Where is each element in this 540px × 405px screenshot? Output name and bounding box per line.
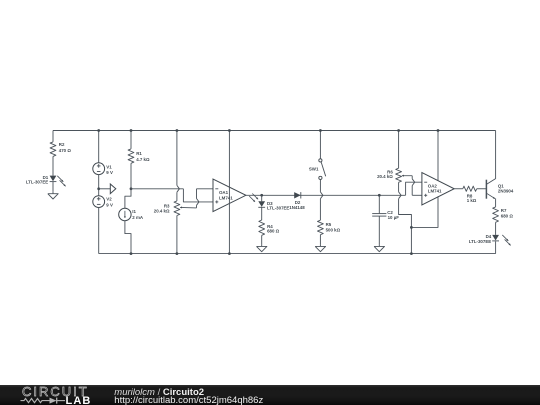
ground for C2 (374, 245, 384, 252)
svg-text:9 V: 9 V (106, 170, 113, 175)
wire V2 to bottom rail (98, 208, 100, 254)
svg-text:680 Ω: 680 Ω (501, 214, 514, 219)
svg-text:LM741: LM741 (219, 195, 233, 200)
svg-text:20.4 kΩ: 20.4 kΩ (154, 208, 170, 213)
svg-text:SW1: SW1 (309, 167, 319, 172)
wire D4 to bottom rail (495, 242, 497, 254)
transistor Q1 (486, 179, 495, 199)
wire rail to R3 with hop (177, 131, 180, 201)
wire bottom rail (99, 253, 496, 255)
resistor R4 (259, 220, 265, 235)
wire Q1 emitter to R7 (495, 198, 497, 207)
wire rail to R1 (130, 131, 132, 149)
wire R7 to D4 (495, 222, 497, 235)
svg-text:1N4148: 1N4148 (289, 205, 305, 210)
svg-text:I1: I1 (132, 209, 136, 214)
label R8 value (467, 193, 477, 203)
label D1 (26, 175, 49, 185)
junction SW1 top rail (319, 129, 322, 132)
junction V1 top rail (97, 129, 100, 132)
logo word CIRCUIT (22, 384, 89, 399)
label R4 value (267, 224, 280, 234)
label Q1 (498, 184, 514, 194)
logo diode (50, 398, 66, 404)
resistor R5 (318, 220, 324, 235)
wire C2 to ground (378, 216, 380, 245)
wire rail to SW1 (319, 131, 321, 159)
R3 wiper arrow (180, 206, 196, 208)
switch SW1 (319, 159, 326, 180)
wire OA1 output main (246, 182, 422, 195)
junction R3 bottom rail (176, 252, 179, 255)
junction R1 top rail (130, 129, 133, 132)
wire R1 to junction (130, 163, 132, 189)
svg-text:LTL-307EE: LTL-307EE (469, 239, 491, 244)
wire R8 to Q1 base (477, 188, 487, 190)
wire V1 to V2 (98, 175, 100, 196)
junction C2 node (378, 194, 381, 197)
wire Q1 collector to rail (495, 131, 497, 179)
LED D1 emission arrows (57, 176, 65, 187)
junction R1 I1 node (130, 187, 133, 190)
svg-text:1 kΩ: 1 kΩ (467, 198, 477, 203)
label R3 value (154, 204, 170, 214)
svg-text:R5: R5 (326, 222, 332, 227)
svg-text:LTL-307EE: LTL-307EE (26, 180, 48, 185)
wire OA2 output to R8 (454, 188, 463, 190)
resistor R2 (50, 142, 56, 157)
label R6 value (377, 170, 393, 180)
wire junction to I1 (125, 189, 131, 209)
wire rail to R6 (398, 131, 400, 169)
wire D1 to ground (52, 182, 54, 192)
junction OA2 Vplus rail (437, 129, 440, 132)
svg-text:2N3904: 2N3904 (498, 189, 514, 194)
logo word LAB (66, 395, 92, 405)
D3 incident light arrows (249, 194, 258, 202)
svg-text:500 kΩ: 500 kΩ (326, 227, 341, 232)
wire OA2 Vplus pin (437, 131, 439, 181)
label I1 (132, 209, 144, 220)
label OA1 (219, 190, 233, 200)
wire node to D3 (261, 195, 263, 201)
label R1 value (136, 151, 150, 162)
label D4 (469, 234, 492, 244)
voltage source V2 (93, 196, 105, 208)
wire R1 node to OA1 plus input (131, 189, 213, 202)
svg-text:470 Ω: 470 Ω (59, 148, 72, 153)
svg-text:680 Ω: 680 Ω (267, 228, 280, 233)
photodiode D3 (258, 201, 265, 207)
R6 wiper arrow (402, 175, 412, 177)
junction OA2 Vminus tee (410, 226, 413, 229)
wire rail to V1 (98, 131, 100, 163)
svg-text:4.7 kΩ: 4.7 kΩ (136, 157, 150, 162)
net flag at V1-V2 node (99, 184, 116, 194)
footer url (114, 395, 263, 405)
op-amp OA2 (422, 173, 454, 205)
svg-text:R2: R2 (59, 142, 65, 147)
svg-text:20.4 kΩ: 20.4 kΩ (377, 174, 393, 179)
junction R6 path bottom rail (410, 252, 413, 255)
svg-text:LM741: LM741 (428, 188, 442, 193)
wire top supply rail (53, 130, 496, 132)
svg-text:9 V: 9 V (106, 202, 113, 207)
logo resistor zigzag (21, 399, 50, 403)
wire R2 to D1 (52, 156, 54, 175)
LED D4 (492, 235, 499, 241)
label V2 (106, 197, 113, 208)
label D2 (289, 200, 305, 210)
wire D3 to R4 (261, 207, 263, 220)
svg-text:V2: V2 (106, 197, 112, 202)
footer author title (114, 387, 204, 398)
label C2 value (387, 210, 399, 220)
svg-text:2 mA: 2 mA (132, 215, 144, 220)
junction node between V1 V2 (97, 187, 100, 190)
svg-text:V1: V1 (106, 164, 112, 169)
resistor R7 (493, 207, 499, 222)
svg-text:R7: R7 (501, 208, 507, 213)
label OA2 (428, 184, 442, 194)
capacitor C2 (372, 214, 386, 217)
potentiometer R6 (396, 168, 402, 182)
svg-text:R1: R1 (136, 151, 142, 156)
op-amp OA1 (213, 179, 246, 212)
resistor R8 (463, 186, 477, 191)
junction D3 node (260, 194, 263, 197)
svg-text:10 µF: 10 µF (388, 215, 400, 220)
wire R5 to ground (319, 235, 321, 245)
wire R2 top (52, 131, 54, 142)
potentiometer R3 (174, 201, 180, 216)
footer watermark bar (0, 385, 540, 405)
LED D4 emission arrows (502, 235, 510, 246)
label V1 (106, 164, 113, 175)
label R7 value (501, 208, 514, 218)
wire R4 to ground (261, 235, 263, 244)
svg-text:LTL-307EE: LTL-307EE (267, 206, 289, 211)
ground for R5 (315, 245, 325, 252)
wire R3 to bottom rail (176, 216, 178, 254)
ground for D1 (48, 192, 58, 199)
wire OA2 Vminus pin (411, 196, 438, 227)
junction I1 bottom rail (130, 252, 133, 255)
resistor R1 (128, 149, 134, 163)
wire OA1 power to rails (228, 131, 230, 254)
wire R3 wiper to OA1 minus input (197, 189, 214, 208)
wire I1 to bottom rail (125, 221, 131, 254)
junction R6 top rail (397, 129, 400, 132)
junction OA1 Vplus rail (228, 129, 231, 132)
label D3 (267, 201, 289, 211)
current source I1 (119, 208, 131, 220)
diode D2 (294, 192, 301, 198)
wire node to C2 (378, 195, 380, 213)
junction OA1 Vminus rail (228, 252, 231, 255)
junction R3 top rail (176, 129, 179, 132)
label SW1 (309, 167, 319, 172)
label R2 value (59, 142, 72, 153)
label R5 value (326, 222, 341, 232)
ground for R4 (257, 245, 267, 252)
voltage source V1 (93, 163, 105, 175)
LED D1 (50, 176, 57, 182)
wire R6 bottom to lower rail with hop (399, 182, 412, 253)
svg-text:LAB: LAB (66, 395, 92, 405)
wire SW1 to R5 with hop (320, 180, 323, 221)
wire R6 wiper to OA2 plus input (412, 176, 422, 196)
